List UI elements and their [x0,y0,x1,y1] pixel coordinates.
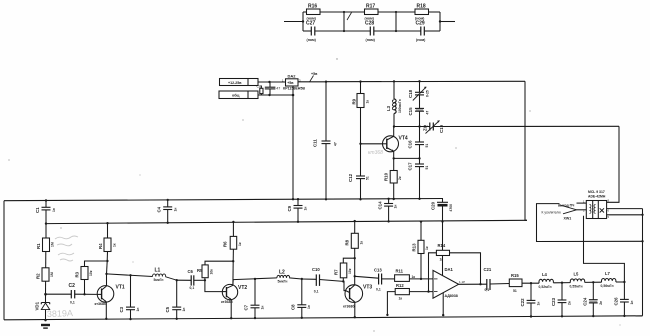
inductor L4 [539,272,571,289]
wire ground rail [4,199,443,201]
svg-text:+12-25в: +12-25в [228,81,242,85]
svg-text:выход ПЧ: выход ПЧ [558,204,575,208]
svg-text:1к: 1к [360,241,364,245]
svg-text:51: 51 [425,144,429,148]
mixer X symbol [600,208,604,212]
svg-text:2к: 2к [398,176,402,180]
svg-text:5мкГн: 5мкГн [278,279,288,283]
capacitor C20 electrolytic [431,199,454,223]
svg-text:1н: 1н [537,302,541,306]
svg-text:(ном): (ном) [307,38,317,42]
capacitor C16 [408,127,430,160]
transistor VT3 [343,276,372,318]
svg-text:1М: 1М [50,272,54,277]
capacitor C28 [365,21,376,43]
svg-text:L3: L3 [386,105,391,111]
wire +5v top rail [326,80,525,82]
wire VT2 collector out [233,278,277,285]
svg-text:L5: L5 [574,272,580,277]
svg-text:5мкГн: 5мкГн [154,278,164,282]
svg-text:C29: C29 [416,21,425,27]
fuse FU1 [257,85,264,96]
svg-text:кт368б: кт368б [343,305,356,309]
capacitor C9a [287,198,308,223]
wire +5v lower rail [46,220,527,223]
resistor R7 [334,258,355,282]
resistor R16 [307,4,321,21]
svg-text:R8: R8 [345,239,350,245]
handwritten slash mark [347,13,352,21]
svg-text:ADE-42MH: ADE-42MH [588,194,606,198]
wire VT3 collector out [355,276,379,278]
svg-text:+5в: +5в [311,72,318,76]
svg-text:C16: C16 [408,140,413,149]
capacitor C9 input [265,82,281,95]
svg-text:XW1: XW1 [564,217,572,221]
svg-text:VT3: VT3 [363,285,372,291]
svg-text:C18: C18 [408,89,413,98]
svg-text:1н: 1н [307,305,311,309]
svg-text:R9: R9 [352,98,357,104]
svg-text:C15: C15 [408,107,413,116]
svg-text:10к: 10к [348,268,352,274]
op-amp DA1 [433,267,465,298]
svg-text:L2: L2 [279,269,285,275]
svg-text:R4: R4 [98,243,103,249]
svg-text:0,56мГн: 0,56мГн [601,284,614,288]
resistor R11 [395,269,433,282]
capacitor C21 [484,267,510,292]
resistor R1 [36,224,55,295]
svg-text:2: 2 [583,209,585,213]
svg-text:VD1: VD1 [35,301,40,310]
svg-text:6-25: 6-25 [426,90,430,97]
resistor R2 [36,268,55,281]
svg-text:4700: 4700 [449,204,453,212]
svg-text:R15: R15 [511,273,519,278]
svg-text:5: 5 [608,215,610,219]
svg-text:C8: C8 [291,304,296,310]
svg-text:L7: L7 [605,271,611,276]
svg-text:ZQ: ZQ [423,124,428,131]
svg-text:R6: R6 [223,241,228,247]
svg-text:C13: C13 [374,268,382,273]
svg-text:51: 51 [513,289,517,293]
capacitor C24 [583,282,604,317]
wire common rail [258,94,294,97]
svg-text:R10: R10 [384,172,389,181]
svg-text:C23: C23 [551,297,556,306]
resistor R17 [365,4,379,21]
svg-text:VT4: VT4 [399,136,408,142]
wire VT2 base [205,280,223,291]
capacitor C19 variable [423,121,445,134]
capacitor C15 [408,107,430,128]
svg-text:C3: C3 [119,306,124,312]
svg-text:КР1158ЕН5В: КР1158ЕН5В [283,86,305,90]
resistor R3 [75,261,108,295]
wire +5v drop to lower rail [525,81,527,220]
svg-text:51: 51 [425,166,429,170]
regulator DA2 [282,74,305,91]
wire top-filter right vertical and output [439,12,455,31]
capacitor C18 trimmer [408,80,430,108]
svg-text:1М: 1М [51,242,55,247]
svg-text:C9: C9 [287,205,292,211]
capacitor C12 [348,143,370,201]
svg-text:+5в: +5в [287,81,294,85]
transistor VT1 [95,274,125,320]
svg-text:C2: C2 [69,283,76,289]
capacitor C23 [551,283,572,318]
wire top-filter mid vertical 1 [343,11,345,32]
svg-text:R14: R14 [438,243,446,248]
svg-text:C26: C26 [614,297,619,306]
svg-text:1н: 1н [394,205,398,209]
svg-text:кт368: кт368 [368,150,383,156]
svg-text:R12: R12 [396,283,404,288]
capacitor C11 [313,82,338,201]
resistor R13 [412,220,430,278]
resistor R18 [415,4,429,21]
svg-text:C7: C7 [244,304,249,310]
capacitor C3 [119,274,140,320]
wire bottom ground rail [4,316,643,320]
capacitor C22 [520,283,541,317]
svg-text:2н: 2н [568,301,572,305]
svg-text:R11: R11 [396,269,404,274]
wire mixer pin6 to ground side [607,209,644,216]
svg-text:(ном): (ном) [366,38,376,42]
capacitor C25 [614,282,635,317]
svg-text:C12: C12 [348,173,353,182]
wire crystal line [394,125,619,127]
svg-text:1н: 1н [630,301,634,305]
svg-text:0,1: 0,1 [376,287,381,291]
svg-text:C19: C19 [439,124,444,133]
svg-text:10к: 10к [210,269,214,275]
svg-text:R2: R2 [36,273,41,279]
wire plus rail to DA2 [258,81,286,83]
svg-text:DA2: DA2 [288,74,297,79]
wire VT4 emitter [393,151,420,159]
mixer U1 box [586,201,606,219]
svg-text:C20: C20 [431,201,436,210]
resistor R12 [386,283,433,316]
mixer pin numbers [583,199,610,219]
svg-text:К усилителю: К усилителю [542,210,562,214]
svg-text:1н: 1н [174,208,178,212]
svg-text:C17: C17 [408,162,413,171]
svg-text:1н: 1н [182,308,186,312]
wire left border [3,201,5,320]
wire DA1 ground [442,293,444,317]
svg-text:R3: R3 [75,271,80,277]
svg-text:47: 47 [334,142,338,146]
watermark handwriting top [55,236,78,261]
svg-text:51: 51 [366,176,370,180]
wire filter output to mixer [584,216,626,283]
svg-text:0,1: 0,1 [190,286,195,290]
resistor R8 [345,220,364,278]
svg-text:VT1: VT1 [116,284,125,290]
svg-text:L1: L1 [155,268,161,274]
capacitor C5 [165,279,186,320]
inductor L1 [153,268,177,282]
svg-text:C6: C6 [188,269,194,274]
capacitor C17 [408,158,430,200]
resistor R15 [509,273,539,293]
svg-text:R16: R16 [308,4,317,10]
capacitor C7 [244,278,265,320]
svg-text:1к: 1к [425,246,429,250]
capacitor C8a [291,278,312,319]
svg-text:R18: R18 [417,4,426,10]
svg-text:1к: 1к [399,297,403,301]
svg-text:L4: L4 [542,272,548,277]
svg-text:C11: C11 [313,139,318,147]
diode VD1 zener [35,294,50,321]
inductor L5 [570,272,602,289]
wire VT4 collector [393,127,395,137]
wire top-filter top rail [303,11,440,13]
transistor VT4 [383,136,408,152]
svg-text:0,55мГн: 0,55мГн [570,284,583,288]
capacitor C4 [157,199,178,224]
transistor VT2 [221,284,247,319]
wire XW1 shield loop [537,204,644,243]
wire DA2 output +5v [298,81,327,83]
wire top-filter bottom rail [303,30,440,32]
svg-text:0,52мГн: 0,52мГн [539,285,552,289]
svg-text:кт368б: кт368б [95,302,108,306]
wire VT1 collector out [107,274,153,277]
svg-text:C21: C21 [484,267,492,272]
svg-text:1к: 1к [238,242,242,246]
capacitor C13 [374,268,395,292]
svg-text:АД8038: АД8038 [445,294,458,298]
svg-text:R1: R1 [36,243,41,249]
svg-text:C8: C8 [257,85,262,89]
resistor R14 [429,243,482,292]
svg-text:47: 47 [276,86,280,90]
svg-text:0,1: 0,1 [314,290,319,294]
svg-text:R7: R7 [334,269,339,275]
node +5v label [310,72,319,82]
svg-text:C24: C24 [583,297,588,306]
resistor R10 [384,158,403,200]
inductor L2 [277,269,302,283]
svg-text:R5: R5 [197,268,203,273]
wire top-filter mid vertical 2 [395,11,397,32]
svg-text:R13: R13 [412,243,417,252]
capacitor C6 [177,269,205,290]
svg-text:10к: 10к [89,270,93,276]
terminal common (gnd) [219,91,258,99]
resistor R5 [197,261,233,281]
svg-text:C4: C4 [157,206,162,212]
wire DA1 V+ [442,222,444,276]
svg-text:1н: 1н [304,207,308,211]
node base divider [44,293,47,296]
svg-text:кт368б: кт368б [221,300,234,304]
wire top-filter left vertical [302,12,304,31]
wire top-filter input [284,20,304,22]
capacitor C2 [46,283,97,304]
wire VT3 base jog [343,281,345,290]
wire right border [642,209,644,316]
svg-text:DA1: DA1 [445,267,454,272]
inductor L3 [386,80,402,128]
svg-text:C27: C27 [306,21,315,27]
svg-text:C28: C28 [365,21,374,27]
svg-text:R17: R17 [366,4,375,10]
svg-text:0,1: 0,1 [485,288,490,292]
capacitor C1 [35,199,56,225]
capacitor C27 [306,21,317,43]
capacitor C10 [302,267,344,293]
resistor R6 [223,221,243,286]
svg-text:1к: 1к [113,243,117,247]
svg-text:1,1Р: 1,1Р [459,280,465,284]
inductor L7 [601,271,625,288]
svg-text:1н: 1н [136,308,140,312]
capacitor C29 [416,21,427,43]
svg-text:1н: 1н [52,208,56,212]
svg-text:C1: C1 [35,207,40,213]
svg-text:47: 47 [426,111,430,115]
capacitor C14 [378,198,398,223]
terminal +12-25v [220,79,259,86]
svg-text:100мкГн: 100мкГн [398,99,402,113]
wire DA2 ground line [292,86,294,200]
connector XW1 [542,203,587,221]
svg-text:2н: 2н [599,301,603,305]
svg-text:1н: 1н [261,306,265,310]
resistor R4 [98,222,117,275]
wire DA1 output [459,283,487,285]
svg-text:3819А: 3819А [47,308,73,319]
mixer type label [588,190,606,198]
svg-text:C10: C10 [312,267,320,272]
wire mixer LO input [607,126,619,202]
svg-text:1к: 1к [366,100,370,104]
resistor R9 [352,80,370,143]
svg-text:VT2: VT2 [238,285,247,291]
svg-text:C22: C22 [520,298,525,307]
speckle marks [8,58,620,331]
mixer windings [590,205,596,214]
svg-text:C14: C14 [378,201,383,210]
wire VT4 base [361,143,383,145]
svg-text:0,1: 0,1 [70,301,75,305]
svg-text:общ: общ [232,94,239,98]
ground symbol [41,324,50,329]
svg-text:(ном): (ном) [416,38,426,42]
svg-text:C5: C5 [165,306,170,312]
